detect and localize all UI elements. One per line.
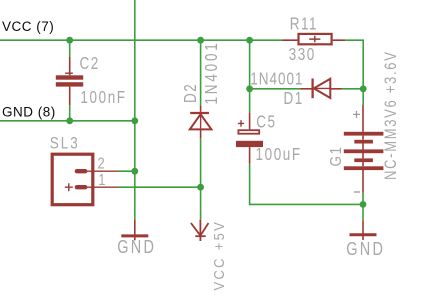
- svg-text:330: 330: [289, 45, 316, 64]
- battery plus mark: [353, 111, 360, 118]
- resistor R11: [282, 34, 345, 44]
- wire R11 right corner down to D1 junction: [345, 40, 363, 105]
- svg-text:D2: D2: [181, 83, 200, 103]
- wire D1 row right segment: [342, 88, 364, 90]
- supply arrow VCC +5V: [191, 220, 209, 241]
- wire C5 bottom to battery minus: [250, 164, 363, 205]
- junction battery minus/GND/C5 wire: [360, 201, 367, 208]
- battery minus mark: [354, 191, 360, 193]
- svg-text:1N4001: 1N4001: [250, 70, 303, 89]
- svg-text:SL3: SL3: [50, 134, 80, 153]
- junction pin2/vertical: [131, 168, 138, 175]
- diode D1: [301, 79, 342, 99]
- svg-text:2: 2: [98, 155, 105, 172]
- wire D1 row left segment: [250, 88, 301, 90]
- svg-text:G1: G1: [328, 145, 345, 166]
- svg-text:VCC (7): VCC (7): [2, 19, 54, 34]
- net VCC rail: [0, 39, 282, 41]
- junction VCC/D2: [197, 37, 204, 44]
- svg-text:D1: D1: [283, 89, 303, 108]
- ground symbol left GND: [121, 220, 148, 241]
- svg-text:R11: R11: [290, 15, 318, 34]
- svg-text:100uF: 100uF: [256, 145, 302, 164]
- junction pin1/D2 line: [197, 184, 204, 191]
- svg-text:GND: GND: [346, 240, 385, 260]
- wire SL3 pin1 to D2 node: [118, 186, 201, 188]
- net GND rail: [0, 120, 135, 122]
- capacitor C5: [236, 113, 263, 164]
- junction GND rail/vertical: [131, 117, 138, 124]
- wire C2 bottom stub: [69, 105, 71, 121]
- svg-text:100nF: 100nF: [80, 88, 126, 107]
- capacitor C2: [56, 57, 83, 105]
- wire C5 branch from VCC down: [249, 40, 251, 112]
- battery G1: [344, 105, 384, 193]
- wire SL3 pin2 to vertical: [118, 170, 135, 172]
- junction D1 left/C5: [246, 85, 253, 92]
- wire D2 anode down to +5V arrow: [200, 139, 202, 220]
- svg-text:1N4001: 1N4001: [203, 40, 222, 104]
- wire D2 branch from VCC: [200, 40, 202, 106]
- svg-text:1: 1: [98, 172, 105, 189]
- svg-text:GND: GND: [117, 238, 156, 258]
- svg-text:C2: C2: [80, 54, 100, 73]
- wire vertical from top edge to left GND: [134, 0, 136, 220]
- svg-text:GND (8): GND (8): [2, 105, 56, 120]
- ground symbol right GND: [350, 220, 377, 240]
- wire battery minus to GND: [362, 193, 364, 220]
- connector SL3: [52, 154, 118, 205]
- junction VCC/C2: [66, 37, 73, 44]
- junction GND/C2: [66, 117, 73, 124]
- svg-text:VCC +5V: VCC +5V: [210, 220, 227, 291]
- svg-text:NC-MM3V6 +3.6V: NC-MM3V6 +3.6V: [382, 50, 401, 180]
- junction VCC/C5 branch: [246, 37, 253, 44]
- junction D1 right/battery: [360, 85, 367, 92]
- wire C2 top stub: [69, 40, 71, 57]
- svg-text:C5: C5: [256, 113, 276, 132]
- diode D2: [190, 106, 212, 139]
